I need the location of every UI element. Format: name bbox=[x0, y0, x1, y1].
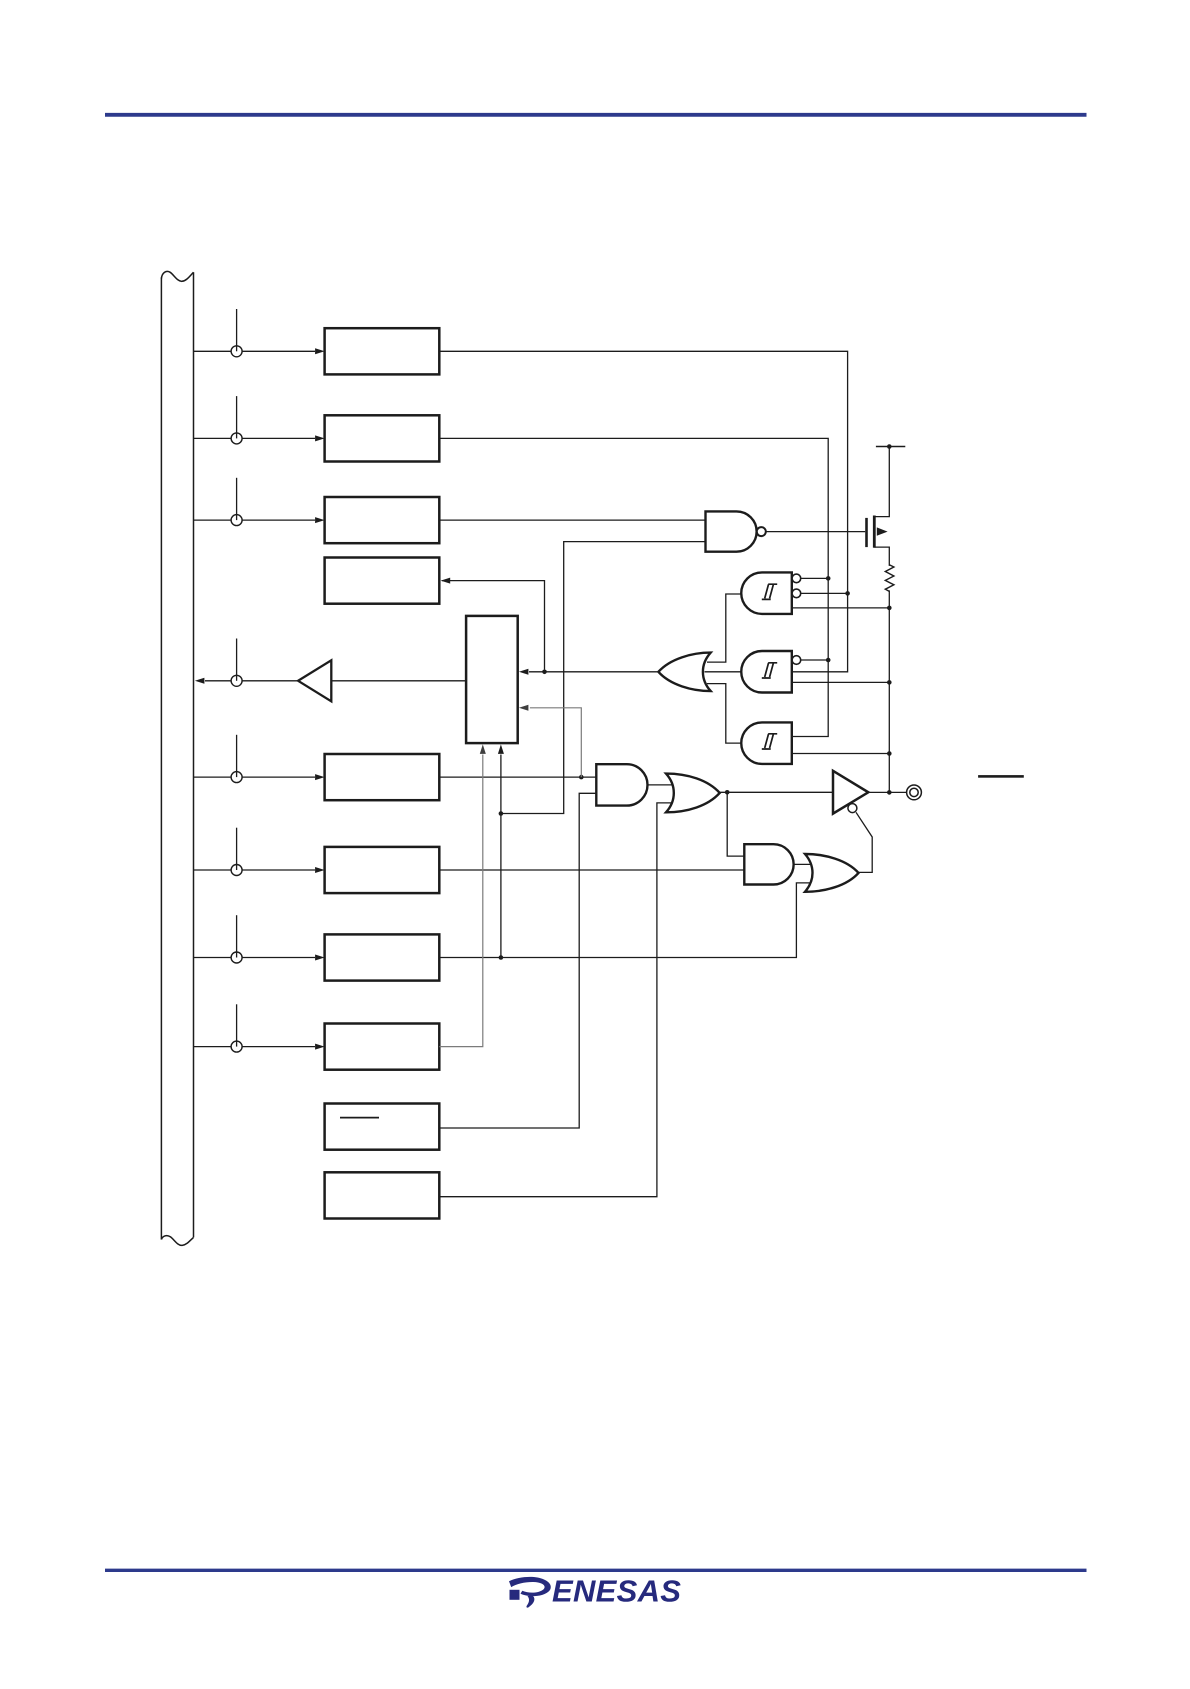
header rule (blue) bbox=[105, 113, 1087, 117]
wire S3 input from pad bbox=[792, 753, 890, 755]
AND gate U4b (output enable) bbox=[744, 844, 820, 884]
svg-text:ENESAS: ENESAS bbox=[552, 1574, 681, 1609]
register box row9 bbox=[325, 1024, 440, 1070]
register box row4 bbox=[325, 558, 440, 604]
Renesas logo bbox=[509, 1574, 681, 1609]
row 2 : direction register bbox=[194, 396, 829, 736]
pin name overline bbox=[978, 775, 1024, 778]
register box row11 bbox=[325, 1172, 440, 1218]
row 1 : pull-up control register bbox=[194, 309, 848, 672]
register box row1 bbox=[325, 328, 440, 374]
OR gate U4 (output data) bbox=[666, 774, 833, 857]
register box row3 bbox=[325, 497, 440, 543]
junction node row8 bbox=[499, 955, 504, 960]
node bus tap row2 bbox=[231, 433, 242, 444]
pad / pin P1_x bbox=[907, 785, 922, 800]
wire buffer U7 output to pad bbox=[868, 791, 906, 793]
wire selector box output to buffer U5 input bbox=[331, 680, 466, 682]
wire register R6 output to AND U3 input 1 bbox=[439, 776, 596, 778]
wire S1 output to OR U2 input 1 bbox=[707, 594, 741, 662]
wire bus to register R1 bbox=[194, 350, 316, 352]
row 4 : port latch read-back register bbox=[325, 558, 547, 675]
tri-state output buffer U7 bbox=[833, 771, 907, 814]
wire AND U3 output to OR U4 input 1 bbox=[648, 784, 683, 786]
wire bus to register R2 bbox=[194, 437, 316, 439]
schmitt trigger S3 bbox=[707, 684, 892, 764]
wire Q1 drain to resistor R-pullup bbox=[874, 547, 889, 566]
wire OR U6 output to buffer U7 enable bubble bbox=[856, 812, 872, 872]
schmitt trigger S1 bbox=[707, 572, 892, 662]
row 6 bbox=[194, 735, 597, 800]
wire S1 enable 1 to R2 net bbox=[801, 577, 828, 579]
wire S1 input from pad bbox=[792, 607, 890, 609]
register box row10 bbox=[325, 1104, 440, 1150]
wire register R11 output to OR U4b input 2 bbox=[439, 803, 682, 1197]
wire register R10 output to AND U3 input 2 bbox=[439, 793, 596, 1128]
wire node to NAND U1 input 2 bbox=[501, 542, 706, 814]
wire register R7 output to AND U4 input 2 bbox=[439, 869, 744, 871]
wire AND U4b output to OR U6 input 1 bbox=[794, 863, 820, 865]
OR gate U6 (enable combine) bbox=[805, 812, 872, 892]
buffer U5 (read buffer, points left) bbox=[298, 660, 331, 701]
AND gate U3 bbox=[596, 764, 682, 805]
wire register R3 output to NAND U1 input 1 bbox=[439, 519, 706, 521]
power rail VCC bbox=[876, 446, 905, 448]
row 8 bbox=[194, 542, 818, 981]
schmitt trigger S2 bbox=[705, 651, 892, 693]
row 3 : function select register bbox=[194, 478, 707, 543]
node bus tap row6 bbox=[231, 772, 242, 783]
node bus tap row8 bbox=[231, 952, 242, 963]
row 9 bbox=[194, 744, 486, 1069]
wire U4 output node down to AND U4b input 1 bbox=[727, 792, 744, 856]
wire pad net vertical bbox=[888, 590, 890, 792]
node bus tap row9 bbox=[231, 1041, 242, 1052]
wire Q1 source to power rail bbox=[874, 447, 889, 517]
wire bus to register R9 bbox=[194, 1046, 316, 1048]
row 11 bbox=[325, 803, 682, 1219]
transistor Q1 (p-channel pull-up MOSFET) bbox=[867, 444, 906, 566]
wire S1 enable 2 to R1 net bbox=[801, 592, 848, 594]
wire register R1 output to schmitt S2 input bbox=[439, 351, 847, 672]
wire OR U2 output to selector box (node X line) bbox=[529, 671, 658, 673]
register box row2 bbox=[325, 415, 440, 461]
NAND gate U1 (pull-up control) bbox=[706, 511, 866, 551]
selector block (tall box) bbox=[466, 616, 518, 743]
node bus tap row7 bbox=[231, 865, 242, 876]
node bus tap row5 bbox=[231, 675, 242, 686]
row 5 : input data read buffer bbox=[195, 639, 466, 702]
row 10 : register with overlined name bbox=[325, 793, 597, 1149]
wire bus to register R3 bbox=[194, 519, 316, 521]
selector box input arrows bbox=[519, 669, 659, 777]
OR gate U2 (input data, points left) bbox=[658, 653, 710, 692]
wire S2 enable to R2 net bbox=[801, 659, 828, 661]
wire row6 node to selector box input (gray) bbox=[530, 708, 581, 777]
wire bus to register R8 bbox=[194, 957, 316, 959]
wire bus to register R7 bbox=[194, 869, 316, 871]
wire register R8 output to OR U6 input 2 bbox=[439, 883, 818, 958]
register box row6 bbox=[325, 754, 440, 800]
wire buffer U5 output to bus bbox=[205, 680, 298, 682]
junction node row6/selector bbox=[579, 775, 584, 780]
data bus (left vertical bus) bbox=[161, 271, 193, 1245]
wire register R2 output to schmitt S3 input bbox=[439, 438, 828, 736]
junction node row8/NAND branch bbox=[499, 811, 504, 816]
label overline row10 bbox=[340, 1117, 379, 1119]
junction node X on OR U2 output bbox=[542, 670, 547, 675]
wire node X to register R4 input bbox=[442, 581, 545, 670]
row 7 bbox=[194, 828, 745, 893]
wire S3 output to OR U2 input 3 bbox=[707, 684, 741, 744]
node bus tap row3 bbox=[231, 515, 242, 526]
wire bus to register R6 bbox=[194, 776, 316, 778]
footer rule (blue) bbox=[105, 1569, 1087, 1572]
wire NAND U1 output to transistor Q1 gate bbox=[766, 531, 865, 533]
wire register R9 output to selector box input A (gray) bbox=[439, 755, 483, 1047]
resistor R-pullup bbox=[885, 565, 894, 793]
register box row7 bbox=[325, 847, 440, 893]
wire OR U4 output to buffer U7 input bbox=[720, 791, 833, 793]
node bus tap row1 bbox=[231, 346, 242, 357]
wire S2 input from pad bbox=[792, 681, 890, 683]
wire row8 node up to selector box input B bbox=[500, 755, 502, 958]
register box row8 bbox=[325, 934, 440, 980]
wire S2 output to OR U2 input 2 bbox=[705, 671, 742, 673]
